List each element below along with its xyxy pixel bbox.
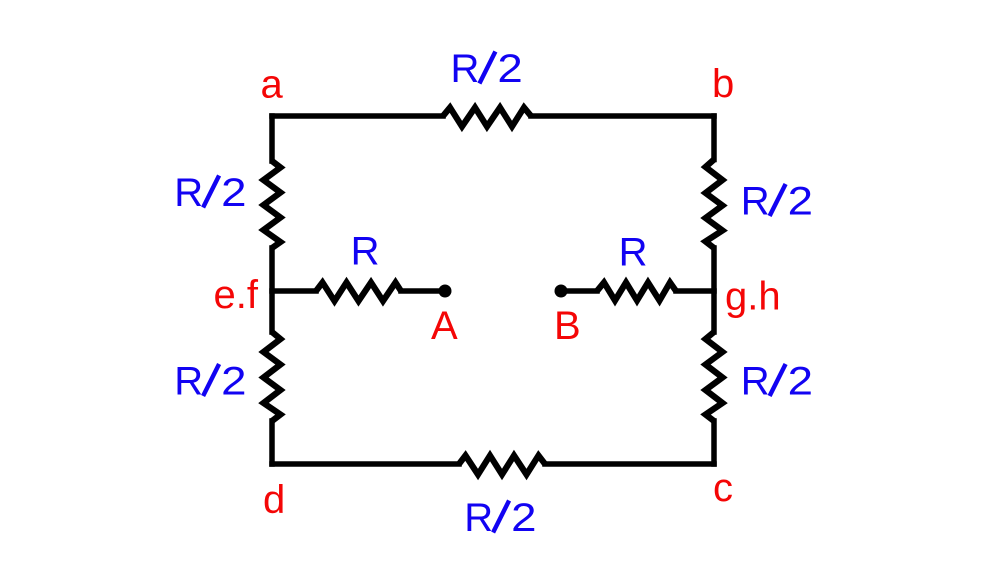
value label R/2 (left upper) (174, 171, 246, 215)
wire: bottom side, node d to resistor (272, 461, 459, 467)
svg-text:b: b (712, 62, 734, 106)
resistor R (right middle) (597, 283, 676, 301)
wire: right resistor R to node g.h (676, 288, 714, 294)
svg-text:d: d (263, 478, 285, 522)
resistor R/2 (bottom) (459, 456, 545, 475)
resistor R/2 (left upper) (264, 161, 281, 248)
wire: terminal B to right resistor R (561, 288, 597, 294)
resistor R/2 (right lower) (706, 332, 723, 421)
value label R/2 (bottom) (464, 496, 536, 540)
resistor R/2 (right upper) (706, 160, 723, 249)
wire: right side, upper resistor through node g.h to lower resistor (711, 248, 717, 332)
svg-text:R: R (351, 230, 380, 274)
wire: node e.f to left resistor R (272, 288, 316, 294)
svg-text:e.f: e.f (214, 273, 259, 317)
svg-text:a: a (261, 63, 284, 107)
value label R/2 (top) (451, 47, 523, 91)
value label R/2 (left lower) (174, 360, 246, 404)
terminal dot B (555, 285, 568, 298)
value label R/2 (right upper) (741, 180, 813, 224)
wire: left side, node a to upper resistor (269, 116, 275, 161)
value label R/2 (right lower) (741, 360, 813, 404)
wire: top side, resistor to node b (531, 113, 714, 119)
wire: right side, lower resistor to node c (711, 421, 717, 464)
wire: left side, upper resistor through node e.f to lower resistor (269, 248, 275, 332)
wire: left resistor R to terminal A (401, 288, 445, 294)
svg-text:c: c (713, 466, 733, 510)
resistor R/2 (top) (443, 108, 531, 127)
svg-text:B: B (554, 304, 581, 348)
resistor R/2 (left lower) (264, 332, 281, 421)
wire: left side, lower resistor to node d (269, 421, 275, 464)
svg-text:A: A (431, 304, 458, 348)
svg-text:R: R (619, 231, 648, 275)
wire: top side, node a to resistor (272, 113, 443, 119)
svg-text:g.h: g.h (725, 275, 781, 319)
wire: right side, node b to upper resistor (711, 116, 717, 160)
resistor R (left middle) (316, 283, 401, 302)
wire: bottom side, resistor to node c (545, 461, 714, 467)
terminal dot A (439, 285, 452, 298)
